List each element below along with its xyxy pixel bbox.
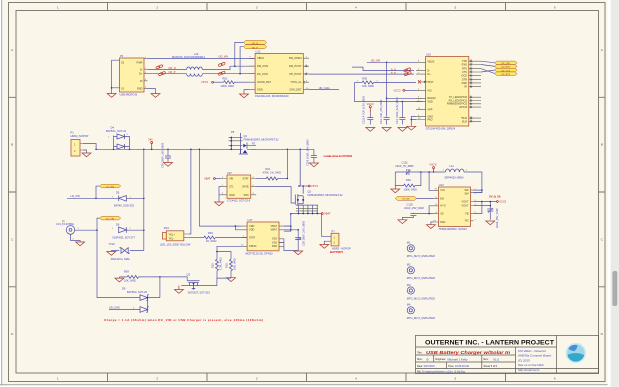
wire Q3 drain to R22 bottom	[205, 278, 231, 286]
svg-text:FB: FB	[465, 212, 469, 216]
svg-text:Title:: Title:	[417, 352, 423, 355]
net tag 5V_EN	[395, 197, 416, 201]
wire Q4 drain to C103	[251, 148, 314, 150]
svg-text:VBUS: VBUS	[427, 60, 434, 64]
ground (C122)	[366, 128, 375, 132]
wire DD_N tag to DM wire	[235, 42, 244, 66]
net tag UD_TXD	[495, 61, 518, 65]
svg-text:U27: U27	[227, 171, 232, 175]
logo globe	[566, 344, 585, 363]
IC U13 TPS61232	[434, 183, 477, 231]
svg-text:VOUT: VOUT	[462, 203, 470, 207]
svg-text:C30 10UF_10V_0603: C30 10UF_10V_0603	[160, 142, 164, 168]
resistor R59	[119, 269, 183, 282]
svg-text:DCD: DCD	[461, 74, 467, 78]
svg-text:10K, 0402: 10K, 0402	[124, 279, 136, 283]
ground (C103)	[309, 163, 318, 167]
svg-text:D9: D9	[122, 286, 126, 290]
svg-text:FDMA6105PZ, MICROFET-22: FDMA6105PZ, MICROFET-22	[308, 193, 344, 197]
wire VBUS: P3 PWR to U12 VBUS	[148, 58, 256, 60]
svg-text:P7: P7	[332, 229, 336, 233]
IC U12	[249, 49, 309, 98]
svg-text:D-: D-	[427, 68, 430, 72]
power port VCC3 (caps rail)	[367, 102, 374, 113]
svg-text:3: 3	[256, 6, 258, 10]
wire L11 to SW pins	[464, 172, 482, 193]
svg-text:D_N: D_N	[391, 67, 396, 71]
svg-text:STAT: STAT	[243, 177, 250, 181]
svg-text:470K, 1%, 0402: 470K, 1%, 0402	[263, 170, 282, 174]
svg-text:HDR2_NOPOP: HDR2_NOPOP	[71, 134, 89, 138]
ground (U27)	[215, 202, 224, 206]
svg-text:D5: D5	[116, 190, 120, 194]
wire DC loop to D9 top anode	[139, 297, 141, 299]
IC U27 LTC4412	[222, 171, 257, 203]
svg-text:4: 4	[355, 6, 357, 10]
ground (C30)	[164, 163, 173, 167]
svg-text:VIN: VIN	[440, 188, 444, 192]
power tap VCC5	[497, 200, 507, 204]
svg-text:VBAT: VBAT	[271, 228, 278, 232]
svg-text:5: 5	[455, 376, 457, 380]
svg-text:U17: U17	[248, 218, 253, 222]
svg-text:LD_VIN: LD_VIN	[106, 186, 114, 188]
svg-text:GND: GND	[137, 87, 143, 91]
ground (R59)	[115, 277, 124, 282]
transistor Q4 (PMOS load switch)	[239, 134, 279, 154]
svg-text:VDD: VDD	[249, 228, 255, 232]
svg-text:P2: P2	[252, 141, 256, 145]
differential pair marker (right of choke)	[218, 62, 226, 76]
ground (P7)	[320, 245, 329, 249]
ground (C28)	[294, 251, 303, 255]
wire VBAT rail to P7	[321, 214, 331, 237]
svg-text:V1.0: V1.0	[493, 357, 500, 361]
wire U17 VDD rail	[199, 149, 241, 230]
dual diode D9	[122, 277, 160, 312]
svg-text:100K, 0402: 100K, 0402	[404, 187, 418, 191]
svg-text:MCP73123-22I, DFN10: MCP73123-22I, DFN10	[246, 251, 274, 255]
svg-text:VBAT: VBAT	[324, 212, 331, 216]
svg-text:1: 1	[57, 6, 59, 10]
svg-text:DP_HOST: DP_HOST	[289, 72, 301, 76]
net tag UD_RTS	[495, 72, 518, 76]
svg-text:(C) 2015: (C) 2015	[518, 358, 530, 362]
svg-text:FDMA6105PZ, MICROFET-22: FDMA6105PZ, MICROFET-22	[244, 138, 280, 142]
pin header P5	[229, 130, 257, 154]
resistor R21	[256, 167, 287, 180]
svg-text:D+: D+	[427, 72, 431, 76]
svg-text:22UF_16V_1206: 22UF_16V_1206	[495, 208, 499, 228]
svg-text:D6: D6	[116, 222, 120, 226]
resistor R30	[355, 77, 416, 88]
svg-text:10K, 0402: 10K, 0402	[233, 258, 237, 270]
svg-text:Q2: Q2	[308, 190, 312, 194]
svg-text:VSYS: VSYS	[201, 80, 208, 84]
svg-text:5V @ 3A: 5V @ 3A	[489, 194, 502, 198]
svg-text:HYS: HYS	[440, 204, 446, 208]
diode D5	[112, 190, 144, 207]
wire P1 pin2 to ground	[83, 150, 87, 153]
ground (C13)	[382, 128, 391, 132]
net tag DC_VIN	[100, 216, 121, 220]
wire U13 HYS join	[429, 206, 434, 214]
wire RTS to tag (crossover)	[481, 69, 495, 74]
svg-text:GND: GND	[229, 193, 235, 197]
capacitor C13	[379, 98, 390, 124]
capacitor C121	[395, 161, 445, 175]
mounting hole M2	[407, 263, 435, 281]
svg-text:CTS: CTS	[462, 70, 467, 74]
wire LD_VIN tag stem	[96, 186, 100, 198]
svg-text:VSS: VSS	[272, 237, 277, 241]
svg-text:100K, 0402: 100K, 0402	[221, 84, 235, 88]
svg-text:6: 6	[554, 6, 556, 10]
svg-text:VBAT: VBAT	[204, 177, 211, 181]
svg-text:R30: R30	[362, 77, 367, 81]
connector P1	[71, 131, 89, 156]
ground (J1)	[76, 241, 85, 246]
svg-text:R62: R62	[406, 178, 411, 182]
svg-text:5: 5	[455, 6, 457, 10]
svg-text:VBUS: VBUS	[257, 56, 264, 60]
wire VBAT row to C28	[291, 230, 298, 232]
resistor R22	[211, 257, 223, 278]
svg-text:U16: U16	[426, 53, 431, 57]
transistor Q2 (PMOS)	[295, 149, 304, 205]
svg-text:http://outernet.is: http://outernet.is	[518, 368, 540, 372]
ground (R62)	[391, 186, 400, 193]
svg-text:DC_VIN: DC_VIN	[106, 218, 114, 220]
svg-text:U12: U12	[256, 49, 261, 53]
svg-text:VIN: VIN	[148, 137, 152, 141]
connector P3	[117, 54, 148, 97]
svg-text:B: B	[11, 143, 13, 147]
svg-text:LED_1X3_SIDE-YELLOW: LED_1X3_SIDE-YELLOW	[160, 243, 191, 247]
svg-text:VDD: VDD	[249, 224, 255, 228]
window bottom edge line	[0, 383, 608, 386]
capacitor C30	[160, 142, 171, 168]
svg-text:CD_P: CD_P	[169, 70, 176, 74]
svg-text:*CHG_AL: *CHG_AL	[290, 80, 302, 84]
svg-text:5V_EN: 5V_EN	[402, 199, 409, 201]
wire DD_P tag to DP wire	[240, 47, 244, 74]
capacitor C120	[402, 202, 433, 220]
svg-text:C120: C120	[407, 202, 414, 206]
ground (Q3 source)	[174, 286, 183, 294]
svg-text:C13 .1UF_25V_0402: C13 .1UF_25V_0402	[379, 99, 383, 124]
wire choke to U12 DM_CON	[203, 66, 256, 69]
svg-text:1K, 0402: 1K, 0402	[206, 239, 217, 243]
svg-text:CD_N: CD_N	[169, 66, 176, 70]
svg-text:C28 10UF_10V_0805: C28 10UF_10V_0805	[302, 220, 306, 246]
svg-text:M2: M2	[407, 263, 411, 267]
svg-text:*RST: *RST	[427, 80, 434, 84]
ground (C120)	[398, 220, 407, 224]
no-connect X at *RST	[418, 80, 421, 83]
svg-text:VCC3: VCC3	[394, 89, 401, 93]
diode D6	[112, 222, 144, 239]
inductor L11	[443, 164, 469, 180]
capacitor C103	[306, 139, 317, 166]
svg-text:DM_CON: DM_CON	[257, 64, 268, 68]
svg-text:SUS: SUS	[462, 119, 468, 123]
svg-text:BAT54C, SOT-23: BAT54C, SOT-23	[127, 290, 148, 294]
wire P3 GND pin to ground	[148, 89, 156, 92]
ground (P3 GND)	[151, 92, 160, 98]
wire U16 GND/PAD to ground	[411, 116, 416, 126]
title block	[416, 335, 599, 373]
svg-text:PAD: PAD	[272, 244, 277, 248]
svg-text:SNS: SNS	[243, 193, 249, 197]
capacitor C36	[487, 208, 499, 228]
wire LD_VIN row	[67, 197, 118, 199]
svg-text:PWR: PWR	[137, 61, 143, 65]
wire U27 GATE to Q2 gate	[256, 187, 295, 203]
svg-text:P5: P5	[231, 130, 235, 134]
svg-text:R23: R23	[225, 263, 229, 268]
wire REGIN row	[387, 62, 423, 98]
wire P3 shield to ground	[112, 60, 117, 91]
svg-text:FSA321L10X, MICROPAK10: FSA321L10X, MICROPAK10	[255, 94, 289, 98]
svg-text:6: 6	[554, 376, 556, 380]
svg-text:VBAT: VBAT	[271, 224, 278, 228]
svg-text:VDD: VDD	[427, 100, 433, 104]
svg-text:TV12: TV12	[109, 242, 116, 246]
vertical VIN bus	[143, 149, 145, 250]
svg-text:UD_CHG: UD_CHG	[109, 306, 120, 310]
ground (C14)	[398, 128, 407, 132]
svg-text:MTG_M2.5_UNPLATED: MTG_M2.5_UNPLATED	[407, 296, 435, 300]
svg-text:DM_HOST: DM_HOST	[289, 64, 302, 68]
svg-text:C14 .01UF_6.3V_0603: C14 .01UF_6.3V_0603	[395, 97, 399, 124]
svg-text:BAT46, SOD-323: BAT46, SOD-323	[114, 203, 135, 207]
svg-text:D_P: D_P	[391, 71, 396, 75]
svg-text:R59: R59	[124, 269, 129, 273]
svg-text:VSYS: VSYS	[430, 162, 437, 166]
svg-text:R22: R22	[211, 263, 215, 268]
svg-text:Charge = 1.1A (1Kohm) when DC_: Charge = 1.1A (1Kohm) when DC_VIN or USB…	[104, 318, 263, 322]
wire DC_VIN node down to D9 loop	[97, 230, 139, 297]
svg-text:2N7002T, SOT-523: 2N7002T, SOT-523	[188, 290, 211, 294]
svg-text:4: 4	[355, 376, 357, 380]
ground (C36)	[486, 221, 495, 225]
wire DS1 YEL+ up to VIN node	[189, 149, 191, 234]
wire P3 D+ to choke	[148, 73, 187, 75]
svg-text:MTG_M2.5_UNPLATED: MTG_M2.5_UNPLATED	[407, 276, 435, 280]
capacitor C122	[362, 95, 374, 124]
svg-text:Q3: Q3	[187, 273, 191, 277]
svg-text:Time: 10:06:49 AM: Time: 10:06:49 AM	[448, 365, 469, 368]
window left edge line	[0, 0, 3, 385]
svg-text:CTL: CTL	[229, 185, 234, 189]
wire U17 VBAT pins join	[284, 226, 291, 230]
svg-text:B: B	[427, 357, 429, 361]
ground (U12)	[240, 92, 249, 98]
wire R30 left leg down to VDD row	[355, 82, 423, 101]
svg-text:EN: EN	[440, 196, 444, 200]
svg-text:USB-MICRO-B: USB-MICRO-B	[120, 93, 138, 97]
wire UD_VIN to U16 VBUS	[367, 61, 416, 63]
mounting hole M3	[407, 283, 435, 301]
svg-text:R21: R21	[266, 167, 271, 171]
svg-text:Sheet 5 of 5: Sheet 5 of 5	[484, 365, 498, 368]
svg-text:P1: P1	[71, 131, 75, 135]
wire UD_CHG to D9	[109, 309, 140, 311]
svg-text:SRP4020-1R0M: SRP4020-1R0M	[445, 176, 464, 180]
svg-text:ID: ID	[140, 79, 143, 83]
svg-text:PAD: PAD	[427, 117, 432, 121]
net tag DD_P	[244, 45, 267, 50]
resistor R33	[189, 231, 247, 243]
wire U13 SW pin2	[474, 190, 482, 193]
svg-text:U13: U13	[439, 183, 444, 187]
svg-text:OUTERNET INC. - LANTERN PROJEC: OUTERNET INC. - LANTERN PROJECT	[425, 340, 554, 346]
wire VIN to U13	[429, 172, 434, 190]
svg-text:C103 10UF_10V_0805: C103 10UF_10V_0805	[306, 139, 310, 166]
IC U16	[416, 53, 481, 131]
svg-text:CHG_DET: CHG_DET	[289, 88, 302, 92]
VBAT rail	[291, 213, 322, 215]
connector P7	[327, 229, 351, 254]
svg-text:YEL+: YEL+	[169, 232, 176, 236]
svg-text:TPS61232DWC, SON10: TPS61232DWC, SON10	[438, 227, 467, 231]
svg-text:LD_VIN: LD_VIN	[71, 194, 80, 198]
svg-text:22UF_6V_0805: 22UF_6V_0805	[395, 164, 414, 168]
differential pair marker (left of choke)	[155, 64, 165, 76]
wire DC_VIN tag stem	[97, 218, 100, 230]
power port VSYS (left of R61)	[201, 80, 214, 84]
wire TXD to tag	[481, 61, 495, 63]
svg-text:GATE: GATE	[242, 185, 249, 189]
svg-text:R33: R33	[208, 231, 213, 235]
svg-text:LTC4412, SOT-23-6: LTC4412, SOT-23-6	[227, 199, 251, 203]
svg-text:YEL-: YEL-	[169, 236, 175, 240]
svg-text:STAT: STAT	[249, 236, 256, 240]
power tap VCC3 to VIO	[394, 89, 417, 93]
svg-text:VSYS: VSYS	[311, 184, 318, 188]
svg-text:2: 2	[156, 376, 158, 380]
svg-text:Date: 9/27/2015: Date: 9/27/2015	[417, 365, 435, 368]
svg-text:Q4: Q4	[244, 134, 248, 138]
net tag UD_CTS	[495, 68, 518, 72]
wire R21 to VIN node	[286, 149, 288, 178]
svg-text:CM Villein - Outernet: CM Villein - Outernet	[518, 349, 546, 353]
svg-text:1: 1	[57, 376, 59, 380]
svg-text:File: D:\eagleswork\lantern_p2: File: D:\eagleswork\lantern_p23ur_r0.Sch…	[417, 371, 466, 374]
svg-text:M3: M3	[407, 283, 411, 287]
svg-text:V10PX0S, SOT-277: V10PX0S, SOT-277	[112, 235, 136, 239]
svg-text:VIO: VIO	[427, 88, 431, 92]
wire P7 pin2 to ground	[324, 241, 326, 244]
ground (P3 shield)	[107, 92, 116, 98]
svg-text:SW_OPEN: SW_OPEN	[289, 56, 302, 60]
svg-text:USB Battery Charger w/Solar In: USB Battery Charger w/Solar In	[426, 350, 510, 355]
mounting hole M1	[407, 241, 435, 259]
svg-text:UD_RTS: UD_RTS	[501, 74, 510, 76]
svg-text:UD_CHG: UD_CHG	[319, 86, 330, 90]
resistor R62	[395, 172, 421, 191]
svg-text:VCC5: VCC5	[499, 200, 506, 204]
wire choke to U12 DP_CON	[203, 73, 256, 75]
TVS TV12	[109, 242, 144, 261]
svg-text:UD_VIN: UD_VIN	[219, 55, 229, 59]
svg-text:AM035a Compute Board: AM035a Compute Board	[517, 354, 551, 358]
svg-text:.01UF_25V_0402: .01UF_25V_0402	[404, 206, 425, 210]
svg-text:BAT54C_SOT-23: BAT54C_SOT-23	[106, 129, 127, 133]
svg-text:10K, 0402: 10K, 0402	[362, 84, 374, 88]
scrollbar thumb	[612, 271, 617, 306]
wire RXD to tag	[481, 65, 495, 67]
svg-text:DP_CON: DP_CON	[257, 72, 268, 76]
svg-text:DSR: DSR	[462, 81, 468, 85]
svg-text:DS1: DS1	[164, 226, 170, 230]
node UD_VIN/REGIN branch	[386, 62, 388, 64]
svg-text:M4: M4	[407, 303, 411, 307]
svg-text:B: B	[601, 143, 603, 147]
ground (TV12)	[107, 251, 116, 256]
power tap VBAT to U27 VIN	[204, 177, 222, 181]
svg-text:GND: GND	[257, 88, 263, 92]
svg-text:CP2104-F03-GM, QFN24: CP2104-F03-GM, QFN24	[426, 126, 456, 130]
resistor R61	[214, 76, 250, 87]
svg-text:D+: D+	[139, 72, 143, 76]
wire VBAT rail down to U17 VBAT pins	[284, 214, 291, 231]
svg-text:GPIO3: GPIO3	[459, 105, 467, 109]
IC U17 MCP73123	[241, 218, 284, 255]
svg-text:SS: SS	[440, 212, 444, 216]
wire U12 GND to ground	[244, 90, 249, 92]
net tag DD_N	[244, 40, 267, 45]
svg-text:C122 4.7UF_6.3V_0603: C122 4.7UF_6.3V_0603	[362, 95, 366, 124]
transistor Q3 (NMOS)	[181, 273, 210, 295]
power port VSYS (boost input)	[430, 162, 437, 172]
svg-text:Rev:: Rev:	[484, 358, 489, 361]
ground (P1)	[82, 153, 91, 157]
svg-text:Size:: Size:	[417, 358, 423, 361]
power tap VBAT (rail)	[321, 212, 331, 216]
svg-text:L11: L11	[450, 164, 455, 168]
svg-text:SMAJ2CA, SMA: SMAJ2CA, SMA	[111, 257, 130, 261]
svg-text:PROG: PROG	[249, 244, 257, 248]
svg-text:GOOD_BAT: GOOD_BAT	[257, 80, 271, 84]
power tap VSYS (Q2)	[298, 184, 318, 188]
capacitor C14	[395, 97, 406, 125]
wire P1 pin1 to VIN node	[83, 144, 96, 150]
svg-text:VOUT: VOUT	[462, 199, 470, 203]
svg-text:UD_VIN: UD_VIN	[371, 59, 381, 63]
dual diode D4	[106, 126, 130, 150]
differential pair marker (U16)	[403, 67, 411, 76]
capacitor C28	[295, 220, 305, 250]
svg-text:VSS: VSS	[272, 240, 277, 244]
resistor R23	[225, 258, 237, 278]
svg-text:PAD: PAD	[440, 220, 445, 224]
net tag UD_RXD	[495, 65, 518, 69]
wire DP to U16 D+	[309, 73, 414, 75]
node S1/S2 junction	[111, 87, 113, 89]
main VIN node wire	[96, 148, 241, 150]
wire VOUT pins to VCC5	[474, 202, 497, 210]
wire U17 PROG to R22/R23	[217, 246, 242, 259]
ground (R23)	[227, 278, 236, 282]
svg-text:M1: M1	[407, 241, 411, 245]
wire CTS to tag (crossover)	[481, 70, 495, 72]
ground (U13 PAD)	[426, 225, 435, 229]
wire U27 CTL+GND to ground	[219, 187, 222, 202]
battery pad bus	[296, 205, 318, 213]
svg-text:SW: SW	[464, 191, 469, 195]
